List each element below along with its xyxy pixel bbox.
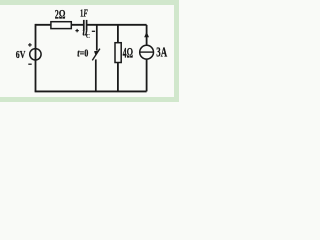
svg-text:t=0: t=0 (77, 47, 88, 59)
wire 3A top lead (146, 25, 148, 45)
wire 4-ohm bottom lead (117, 63, 119, 92)
svg-text:6V: 6V (16, 50, 26, 61)
plus polarity of voltage source (28, 43, 32, 47)
wire bottom (35, 90, 147, 92)
capacitor C1 right plate (86, 20, 88, 31)
svg-text:4Ω: 4Ω (123, 45, 133, 61)
wire top (node TL to capacitor) (36, 24, 84, 26)
resistor R1 2-ohm box (51, 22, 71, 29)
capacitor C1 left plate (83, 20, 85, 31)
svg-text:C: C (86, 33, 90, 40)
wire top (capacitor to node TR) (87, 24, 147, 26)
resistor R2 4-ohm box (115, 43, 121, 63)
switch S arrowhead (94, 51, 99, 56)
current source IS circle (140, 45, 154, 59)
svg-text:3A: 3A (156, 44, 167, 59)
switch S blade (92, 49, 100, 61)
svg-text:1F: 1F (80, 9, 88, 20)
current source IS direction arrow (144, 32, 149, 38)
label plus of uc (75, 29, 78, 32)
minus polarity of voltage source (28, 63, 31, 65)
svg-text:2Ω: 2Ω (55, 8, 66, 22)
wire switch top lead (96, 25, 98, 51)
label minus of uc (92, 30, 95, 32)
current source IS inner bar (140, 51, 153, 53)
wire 4-ohm top lead (117, 25, 119, 43)
wire switch bottom lead (95, 59, 97, 91)
wire 3A bottom lead (146, 59, 148, 91)
wire left branch through voltage source (35, 24, 37, 92)
voltage source US circle (30, 49, 41, 60)
